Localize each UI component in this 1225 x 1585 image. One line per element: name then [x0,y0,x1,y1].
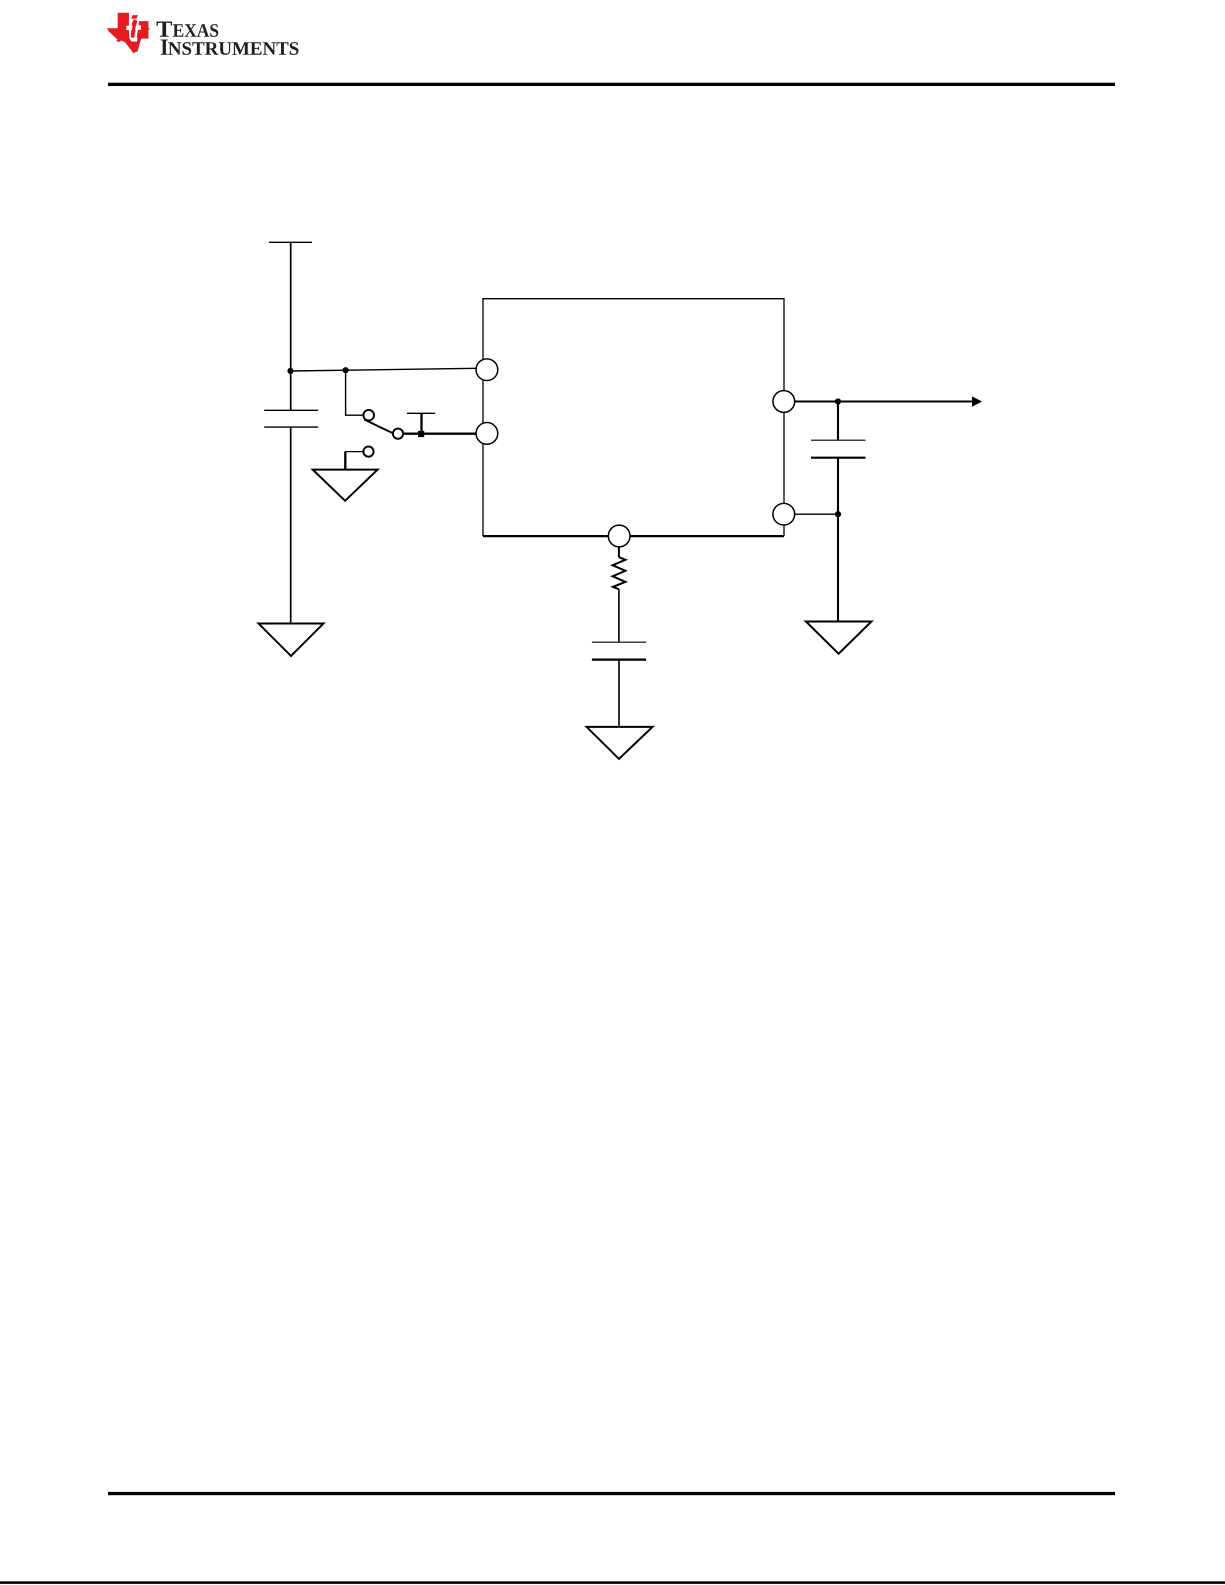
wire C2 to GND node [837,458,839,515]
wire C3 to ground G4 [618,660,620,727]
IC U1 box [483,299,784,536]
junction dot VOUT node [835,398,841,404]
wire GND pin to node [795,513,838,515]
wire NC to ground G2 [344,452,346,470]
resistor R1 [613,557,626,589]
switch blade [364,420,393,434]
capacitor C2 top plate [811,439,866,441]
ground G1 [259,624,324,657]
page bottom border [0,1581,1225,1584]
junction square EN node [418,431,424,437]
node VIN terminal stub [269,241,312,243]
wire VOUT to C2 [837,402,839,441]
wire switch branch down [346,370,364,415]
junction dot VIN node [287,368,293,374]
ground G3 [806,622,872,654]
capacitor C3 top plate [592,641,646,643]
logo text TEXAS INSTRUMENTS [157,22,299,55]
wire EN [403,433,476,435]
pin GND (U1) [773,503,795,525]
TI logo bug [107,13,150,53]
junction dot switch branch [343,367,349,373]
header rule [108,83,1115,86]
wire VIN to IN pin [291,368,477,371]
pin EN (U1) [476,423,498,445]
pin IN (U1) [476,359,498,381]
pin OUT (U1) [773,391,795,413]
switch NC contact circle [363,447,373,457]
EN stub vertical [420,413,422,433]
wire NC contact left [345,451,363,453]
footer rule [108,1492,1115,1495]
wire VOUT [795,400,973,402]
arrowhead VOUT [972,396,982,406]
junction dot GND node [835,511,841,517]
ground G4 [587,727,653,759]
switch pole contact circle [393,429,403,439]
wire FB stub [618,547,620,557]
wire VIN vertical [290,242,292,410]
pin FB (U1) [608,525,630,547]
ground G2 [313,470,378,501]
wire R1 to C3 [618,589,620,642]
IC U1 bottom edge (thick wire) [483,535,784,537]
capacitor C2 bottom plate [811,457,866,459]
switch throw contact circle [363,410,374,421]
capacitor C3 bottom plate [592,658,646,660]
capacitor C1 top plate [264,409,318,411]
wire C1 to ground G1 [290,427,292,623]
wire GND node to ground G3 [837,514,839,621]
EN stub bar [407,412,435,414]
capacitor C1 bottom plate [264,426,318,428]
